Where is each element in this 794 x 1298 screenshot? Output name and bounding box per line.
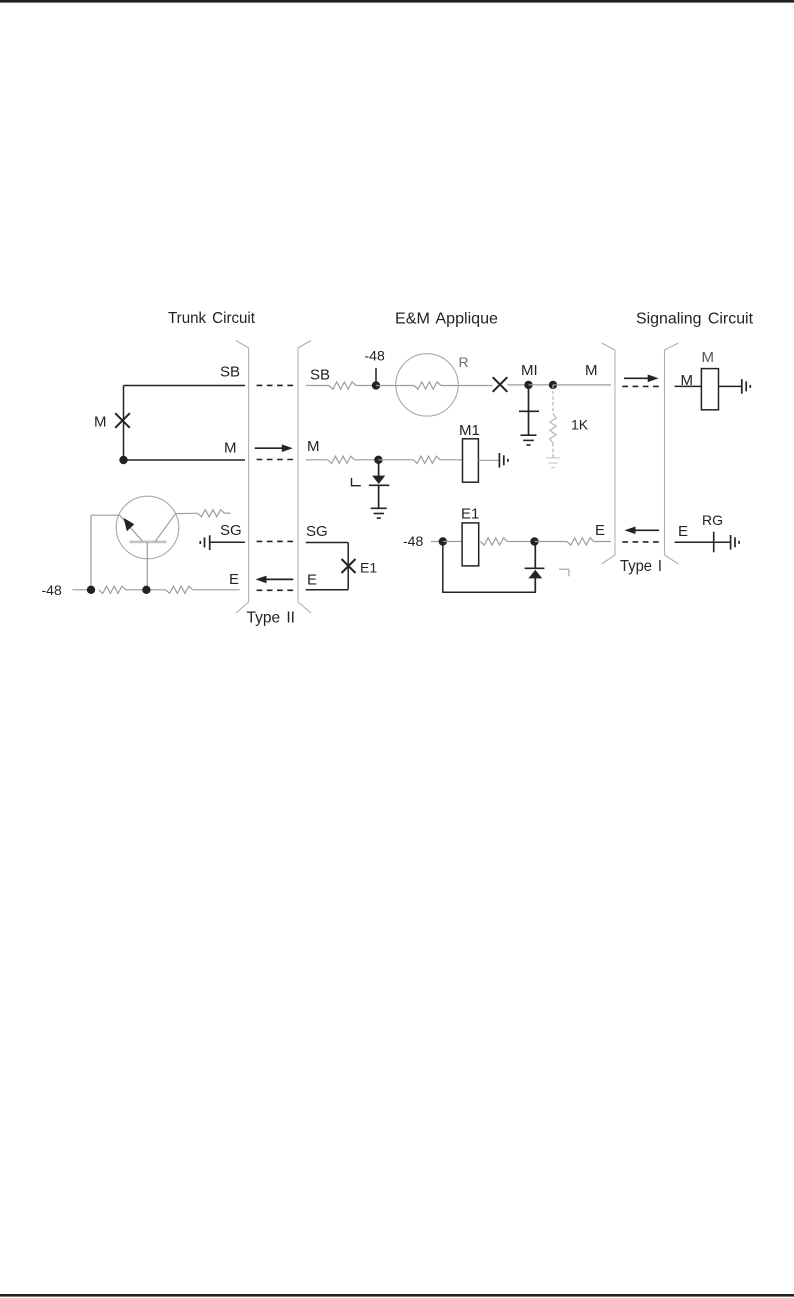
- wire Q1 base to rail: [146, 542, 148, 590]
- transistor Q1: [116, 496, 179, 559]
- dashed tie SG: [257, 540, 294, 542]
- wire SB (applique): [306, 385, 329, 387]
- svg-text:M: M: [94, 414, 107, 431]
- svg-text:E: E: [678, 523, 688, 540]
- ground (MI): [521, 434, 537, 436]
- dashed tie E: [257, 589, 294, 591]
- wire X to MI node: [508, 384, 525, 386]
- resistor 1K: [550, 414, 556, 443]
- wire SG-E vertical: [347, 543, 349, 590]
- page bottom rule: [0, 1294, 794, 1297]
- polarity mark (CR2): [559, 569, 569, 576]
- wire R7 to node: [507, 541, 534, 543]
- svg-text:E1: E1: [461, 506, 479, 523]
- wire -48 feed (trunk rail): [73, 589, 92, 591]
- wire 1K drop: [552, 385, 554, 414]
- contact MI to ground: [528, 385, 530, 435]
- svg-text:M: M: [224, 440, 237, 457]
- resistor R6 (M row): [413, 456, 440, 463]
- dashed tie M: [257, 459, 294, 461]
- svg-text:E: E: [307, 571, 317, 588]
- resistor R3 (rail): [166, 586, 193, 593]
- svg-text:SG: SG: [306, 523, 328, 540]
- svg-text:M: M: [702, 349, 715, 366]
- wire node to relay R: [376, 385, 396, 387]
- wire E out (applique): [594, 541, 611, 543]
- relay E1: [462, 523, 479, 566]
- wire rail segment: [126, 589, 166, 591]
- relay M1: [463, 439, 479, 482]
- ground (CR1): [371, 507, 387, 509]
- wire E (signaling): [675, 541, 730, 543]
- wire E (applique loop): [306, 589, 349, 591]
- wire loop left-down (E1): [442, 542, 444, 593]
- signal arrow M (to signaling): [624, 377, 649, 379]
- wire node to R6: [378, 459, 413, 461]
- wire Q1 collector lead: [176, 512, 198, 515]
- svg-text:E1: E1: [360, 559, 377, 575]
- svg-text:RG: RG: [702, 512, 723, 528]
- resistor R4 (SB row): [329, 382, 356, 389]
- contact RG (cross bar): [713, 532, 715, 553]
- battery (RG): [730, 535, 732, 550]
- svg-text:E: E: [229, 571, 239, 588]
- wire M (signaling): [675, 385, 702, 387]
- svg-text:M: M: [307, 438, 320, 455]
- svg-text:SB: SB: [220, 364, 240, 381]
- node 1K junction: [549, 381, 557, 389]
- wire -48 to E1 node: [431, 541, 443, 543]
- wire relay M to battery: [719, 385, 742, 387]
- svg-text:Type I: Type I: [620, 558, 662, 575]
- battery SG (trunk): [199, 541, 201, 544]
- contact X E1: [342, 559, 356, 573]
- wire 1K to ground: [552, 443, 554, 458]
- svg-text:SB: SB: [310, 367, 330, 384]
- wire SG (trunk): [210, 541, 245, 543]
- resistor R7 (E1 row): [480, 538, 507, 545]
- resistor R8 (E row): [567, 538, 594, 545]
- svg-text:E: E: [595, 522, 605, 539]
- node E1 left junction: [439, 537, 447, 545]
- wire node to R8: [535, 541, 567, 543]
- boundary bracket (trunk side): [236, 341, 249, 614]
- page top rule: [0, 0, 794, 3]
- wire -48 drop (SB feed): [375, 368, 377, 386]
- ground (1K): [546, 457, 560, 459]
- node E1 right junction: [530, 537, 538, 545]
- svg-text:R: R: [459, 354, 469, 370]
- wire MI to 1K node: [529, 384, 554, 386]
- node B (rail center): [142, 586, 150, 594]
- svg-text:MI: MI: [521, 362, 538, 379]
- svg-text:M: M: [585, 362, 598, 379]
- dashed tie SB: [257, 384, 294, 386]
- wire node to relay E1: [443, 541, 462, 543]
- svg-text:-48: -48: [42, 582, 62, 598]
- node A (rail left): [87, 586, 95, 594]
- resistor R1 (collector): [198, 510, 225, 517]
- relay R (circle with winding): [396, 354, 458, 416]
- dashed tie M (type I): [622, 385, 659, 387]
- wire M (applique): [306, 459, 328, 461]
- diode CR2 (in loop): [525, 542, 545, 593]
- wire M out (applique SB row): [553, 384, 611, 386]
- svg-text:M: M: [681, 372, 694, 389]
- wire M (trunk): [124, 459, 246, 461]
- svg-text:SG: SG: [220, 522, 242, 539]
- wire SG (applique): [306, 542, 349, 544]
- node junction M wire (trunk): [119, 456, 127, 464]
- boundary bracket (signaling side): [665, 343, 679, 564]
- wire M1 to battery: [478, 459, 498, 461]
- svg-text:M1: M1: [459, 422, 480, 439]
- signal arrow M (to applique): [255, 447, 283, 449]
- node M junction: [374, 456, 382, 464]
- wire Q1 emitter to -48 rail: [91, 514, 120, 516]
- svg-text:Type II: Type II: [247, 610, 296, 627]
- wire SB-to-M vertical (trunk): [123, 386, 125, 461]
- battery (M1): [498, 453, 500, 468]
- diode CR1 (to ground): [369, 460, 389, 509]
- svg-text:Signaling Circuit: Signaling Circuit: [636, 311, 754, 328]
- boundary bracket (applique left): [298, 341, 311, 614]
- contact X M (trunk): [115, 413, 130, 428]
- boundary bracket (applique right): [602, 343, 616, 564]
- svg-text:Trunk Circuit: Trunk Circuit: [168, 310, 256, 327]
- wire R5 to node: [355, 459, 379, 461]
- svg-text:-48: -48: [365, 348, 385, 364]
- wire R4 to node: [356, 385, 376, 387]
- wire SB (trunk): [124, 385, 246, 387]
- wire R6 to relay M1: [440, 459, 462, 461]
- polarity mark (CR1): [352, 478, 361, 486]
- node SB junction: [372, 381, 380, 389]
- svg-text:1K: 1K: [571, 417, 589, 433]
- battery (M relay): [741, 379, 743, 394]
- svg-text:E&M Applique: E&M Applique: [395, 311, 498, 328]
- wire relay R to contact X: [458, 385, 492, 387]
- resistor R5 (M row): [328, 456, 355, 463]
- signal arrow E (to applique): [635, 529, 660, 531]
- resistor R2 (rail): [99, 586, 126, 593]
- dashed tie E (type I): [622, 541, 659, 543]
- wire rail to E: [193, 589, 240, 591]
- svg-text:-48: -48: [403, 533, 423, 549]
- node MI junction: [524, 381, 532, 389]
- signal arrow E (to trunk): [266, 578, 294, 580]
- contact X (SB row): [493, 377, 508, 392]
- relay M (signaling): [701, 369, 718, 410]
- wire R1 tail: [225, 512, 231, 514]
